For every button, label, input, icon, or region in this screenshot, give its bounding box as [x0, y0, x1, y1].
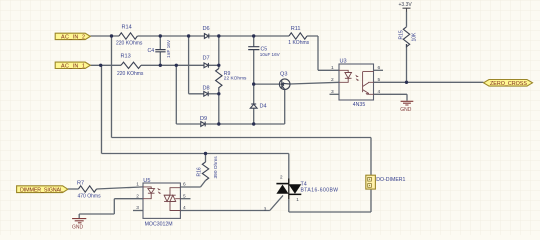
svg-text:3: 3: [136, 205, 139, 211]
svg-text:D8: D8: [203, 86, 210, 92]
wire rail to triac y=153.5: [102, 154, 289, 184]
wire R16 top: [205, 154, 207, 163]
svg-text:+3.3V: +3.3V: [399, 2, 413, 8]
wire Q3 collector to U3 pin2: [290, 82, 339, 84]
svg-text:1: 1: [331, 65, 334, 71]
diode D8: [204, 91, 208, 96]
wire U5 pin2 to GND: [79, 199, 143, 219]
wire U3 pin4 to GND: [374, 94, 408, 100]
diode D6: [204, 34, 208, 39]
resistor R7: [78, 186, 96, 192]
ground GND under U3: [401, 101, 414, 105]
wire U5 pin5 stub: [180, 198, 190, 200]
transistor Q3: [279, 79, 290, 90]
svg-text:T4: T4: [301, 181, 307, 187]
wire U3 pin3 stub: [330, 93, 340, 95]
wire R11 corner to U3 pin1: [318, 36, 339, 70]
resistor R13: [121, 62, 141, 68]
diode D9: [201, 122, 205, 127]
svg-text:GND: GND: [400, 107, 412, 113]
svg-text:BTA16-600BW: BTA16-600BW: [301, 188, 339, 194]
svg-text:D4: D4: [260, 104, 267, 110]
wire R16 bottom jog to U5 pin6: [180, 181, 205, 188]
wire AC_IN_1 rail y=65.3: [90, 64, 219, 66]
svg-text:C4: C4: [148, 48, 155, 54]
svg-text:1 KOhms: 1 KOhms: [288, 40, 309, 46]
svg-text:GND: GND: [72, 225, 84, 231]
wire column R9 x=218.8: [218, 36, 220, 124]
wire column C4 x=160.3: [159, 36, 161, 65]
svg-text:R11: R11: [291, 26, 301, 32]
capacitor C4: [155, 50, 165, 52]
power +3.3V: [403, 8, 411, 12]
resistor R16 vertical: [202, 162, 208, 181]
wire Q3 base row: [254, 83, 280, 85]
svg-text:390 Ohms: 390 Ohms: [213, 156, 219, 179]
wire rail to connector y=137.5: [112, 138, 372, 176]
wire U5 pin3 stub: [133, 210, 143, 212]
svg-text:5: 5: [183, 193, 186, 199]
svg-text:4N35: 4N35: [353, 102, 366, 108]
svg-text:MOC3012M: MOC3012M: [145, 222, 173, 228]
port AC_IN_2: [55, 33, 90, 41]
wire Q3 emitter down: [284, 89, 286, 124]
svg-text:2: 2: [280, 175, 283, 180]
svg-text:470 Ohms: 470 Ohms: [78, 194, 102, 200]
svg-text:1nF 16V: 1nF 16V: [166, 39, 172, 58]
svg-text:ZERO_CROSS: ZERO_CROSS: [490, 81, 527, 87]
wire AC_IN_2 rail y=36: [90, 35, 318, 37]
diode D4: [250, 104, 257, 108]
svg-text:U5: U5: [143, 178, 150, 184]
port ZERO_CROSS: [484, 80, 533, 88]
svg-text:DIMMER_SIGNAL: DIMMER_SIGNAL: [20, 188, 63, 194]
triac T4: [264, 175, 302, 212]
wire column x=188.6 to D8: [189, 36, 204, 94]
svg-text:1: 1: [296, 197, 299, 202]
svg-text:AC_IN_1: AC_IN_1: [61, 64, 85, 70]
connector DO-DIMER1: [366, 175, 376, 189]
svg-text:2: 2: [331, 77, 334, 83]
capacitor C5: [248, 47, 259, 50]
svg-text:4: 4: [183, 205, 186, 211]
svg-text:10K: 10K: [411, 32, 417, 42]
wire column x=101.5 AC1 down: [101, 65, 103, 153]
resistor R15 vertical: [403, 27, 409, 47]
svg-text:D9: D9: [200, 116, 207, 122]
svg-text:R13: R13: [121, 54, 131, 60]
svg-text:R15: R15: [399, 30, 405, 39]
svg-text:6: 6: [378, 65, 381, 71]
wire DIMMER row to R7: [68, 188, 79, 190]
wire R15 column: [406, 12, 408, 83]
wire U5 pin4 to triac gate: [180, 195, 283, 210]
diode D7: [204, 63, 208, 68]
U5 pin numbers: [136, 182, 186, 212]
svg-text:3: 3: [264, 206, 267, 211]
svg-text:R16: R16: [196, 167, 202, 176]
wire U3 pin5 to ZERO_CROSS: [374, 81, 484, 83]
wire minus row y=124: [176, 123, 284, 125]
port AC_IN_1: [55, 62, 90, 70]
svg-text:220 KOhms: 220 KOhms: [116, 41, 143, 47]
svg-text:10uF 16V: 10uF 16V: [260, 52, 281, 57]
svg-text:4: 4: [378, 89, 381, 95]
svg-text:R14: R14: [122, 25, 132, 31]
svg-text:220 KOhms: 220 KOhms: [117, 71, 144, 77]
svg-text:22 KOhms: 22 KOhms: [224, 75, 247, 81]
resistor R9 vertical: [216, 69, 222, 91]
wire D8 cathode to column: [209, 93, 219, 95]
svg-text:3: 3: [331, 89, 334, 95]
wire column C5/D4 x=253.7: [253, 36, 255, 124]
wire U3 pin6 stub: [374, 69, 384, 71]
svg-text:R7: R7: [77, 180, 84, 186]
opto-triac U5 MOC3012M: [143, 183, 180, 218]
svg-text:Q3: Q3: [280, 71, 287, 77]
wire T4 bottom rail: [289, 189, 371, 212]
resistor R14: [119, 33, 137, 39]
svg-text:AC_IN_2: AC_IN_2: [61, 35, 85, 41]
svg-text:DO-DIMER1: DO-DIMER1: [376, 177, 405, 183]
svg-text:D6: D6: [203, 26, 210, 32]
optocoupler U3 4N35: [339, 64, 374, 100]
port DIMMER_SIGNAL: [17, 186, 68, 194]
U3 pin numbers: [331, 65, 381, 95]
ground GND bottom left: [72, 219, 86, 223]
svg-text:6: 6: [183, 182, 186, 188]
svg-text:U3: U3: [340, 58, 347, 64]
wire column x=176.3 to D9: [175, 65, 177, 124]
wire R7 to U5 pin1: [97, 187, 144, 189]
svg-text:5: 5: [378, 77, 381, 83]
resistor R11: [289, 33, 307, 39]
svg-text:1: 1: [136, 182, 139, 188]
svg-text:D7: D7: [203, 56, 210, 62]
svg-text:2: 2: [136, 193, 139, 199]
wire column x=111.5 AC2 down: [111, 36, 113, 138]
